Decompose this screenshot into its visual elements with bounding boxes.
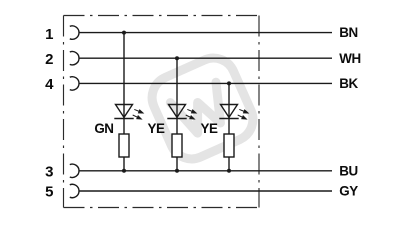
connector boundary (dash-dot border) — [64, 16, 260, 208]
junction dots — [122, 31, 231, 173]
LED D1 (GN) — [114, 105, 133, 119]
svg-text:1: 1 — [45, 26, 53, 43]
resistor R2 — [172, 134, 182, 157]
LED D3 (YE) — [219, 105, 238, 119]
watermark logo — [145, 51, 260, 166]
wire pin3 BU — [79, 170, 332, 172]
svg-text:YE: YE — [201, 121, 218, 136]
svg-text:GY: GY — [339, 184, 358, 199]
wire pin4 BK — [79, 82, 332, 84]
resistor R3 — [224, 134, 234, 157]
pin 3 contact — [70, 164, 79, 177]
pin 2 contact — [70, 52, 79, 65]
resistor R1 — [119, 134, 129, 157]
LED D2 arrows — [186, 109, 196, 119]
wire pin2 WH — [79, 57, 332, 59]
svg-text:YE: YE — [148, 121, 165, 136]
svg-text:GN: GN — [94, 121, 113, 136]
wire drop 3 — [228, 83, 230, 170]
wire drop 1 — [123, 33, 125, 171]
wire pin5 GY — [79, 190, 332, 192]
LED D3 arrows — [238, 109, 248, 119]
svg-text:5: 5 — [45, 183, 53, 200]
svg-text:BN: BN — [339, 25, 357, 40]
LED D2 (YE) — [167, 105, 186, 119]
pin 1 contact — [70, 26, 79, 39]
svg-text:BK: BK — [339, 76, 358, 91]
svg-text:3: 3 — [45, 164, 53, 181]
svg-text:WH: WH — [339, 51, 360, 66]
svg-text:BU: BU — [339, 163, 357, 178]
pin 4 contact — [70, 77, 79, 90]
svg-text:4: 4 — [45, 76, 54, 93]
wire drop 2 — [176, 58, 178, 171]
LED D1 arrows — [133, 109, 143, 119]
wire pin1 BN — [79, 32, 332, 34]
pin 5 contact — [70, 184, 79, 197]
svg-text:2: 2 — [45, 51, 53, 68]
